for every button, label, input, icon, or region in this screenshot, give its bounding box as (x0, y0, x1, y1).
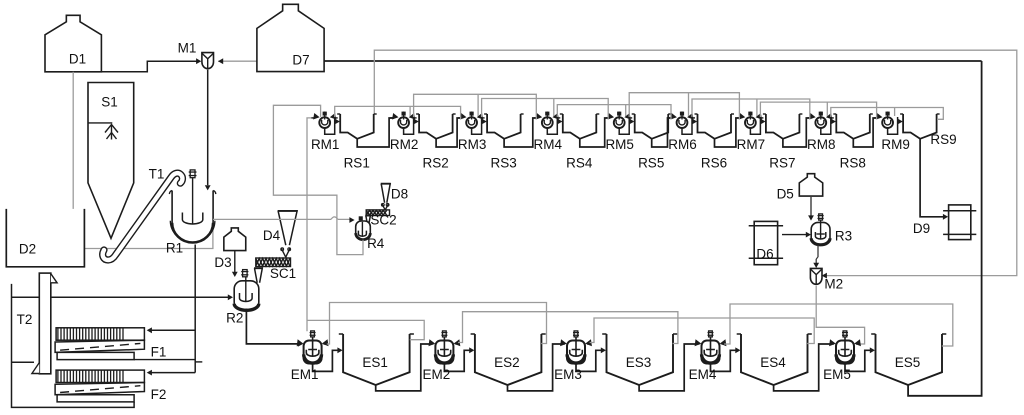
svg-text:ES4: ES4 (760, 355, 786, 370)
svg-text:R3: R3 (835, 229, 852, 244)
mixer RM4 (534, 112, 563, 152)
svg-text:D6: D6 (756, 247, 773, 262)
wire RS4 outlet to RM5 (580, 118, 610, 147)
svg-text:SC1: SC1 (270, 266, 296, 281)
connector under D4 (281, 248, 291, 257)
settler RS6 (695, 114, 735, 170)
svg-text:EM1: EM1 (291, 367, 319, 382)
wire RS3 outlet to RM4 (504, 118, 538, 147)
svg-text:RS3: RS3 (490, 155, 516, 170)
wire recycle stage 5 (629, 93, 739, 120)
wire R1 to filters F1 F2 (194, 245, 196, 373)
settler ES1 (339, 334, 414, 385)
silo D1 (45, 15, 101, 72)
svg-text:T2: T2 (17, 312, 33, 327)
settler RS5 (632, 114, 672, 170)
filter tank S1 (88, 83, 134, 239)
svg-text:RM3: RM3 (458, 137, 487, 152)
belt filter F2 (55, 370, 166, 402)
belt filter F1 (55, 328, 166, 360)
tank D2 (6, 209, 84, 267)
wire recycle stage 7 (760, 102, 876, 119)
funnel D8 (381, 184, 408, 203)
hopper D3 (214, 228, 245, 270)
svg-text:RS5: RS5 (638, 155, 664, 170)
svg-text:RM6: RM6 (668, 137, 697, 152)
mixer EM1 (291, 331, 343, 382)
wire to reactor R2 (12, 294, 234, 300)
conveyor T1 (103, 167, 183, 261)
wire ES1 light phase to RM1 (307, 118, 424, 340)
drum D6 (749, 221, 783, 264)
reactor R3 (811, 214, 852, 245)
screw conveyor SC2 (366, 210, 396, 228)
wire M2 to EM5 (816, 286, 864, 344)
svg-text:RM4: RM4 (534, 137, 563, 152)
reactor R1 (166, 170, 216, 256)
settler RS7 (763, 114, 803, 170)
settler ES2 (471, 334, 546, 385)
wire left loop to T2 (12, 361, 35, 363)
wire D5 to R3 (808, 196, 814, 221)
settler RS2 (416, 114, 456, 170)
funnel D4 (263, 211, 298, 245)
funnel SC2 outlet (365, 216, 371, 224)
svg-text:RS2: RS2 (422, 155, 448, 170)
svg-text:EM3: EM3 (554, 367, 582, 382)
svg-text:ES1: ES1 (362, 355, 388, 370)
settler RS8 (833, 114, 873, 170)
wire RS2 outlet to RM3 (436, 118, 462, 147)
wire RS5 outlet to RM6 (652, 118, 673, 147)
wire R2 to EM1 (246, 309, 303, 347)
svg-text:RM9: RM9 (881, 137, 910, 152)
settler RS3 (484, 114, 523, 170)
settler ES4 (737, 334, 812, 385)
reactor R4 (356, 216, 385, 251)
wire top rail from D7 to right side (324, 60, 981, 62)
svg-text:T1: T1 (149, 167, 165, 182)
funnel SC1 outlet (254, 268, 263, 283)
svg-text:RM5: RM5 (605, 137, 634, 152)
svg-text:RS7: RS7 (769, 155, 795, 170)
svg-text:RM2: RM2 (390, 137, 419, 152)
settler RS4 (560, 114, 600, 170)
wire recycle stage 1 (335, 106, 461, 119)
wire recycle stage 6 (692, 99, 810, 120)
svg-text:M2: M2 (824, 277, 843, 292)
svg-text:M1: M1 (178, 41, 197, 56)
svg-text:R2: R2 (226, 311, 243, 326)
settler ES5 (871, 334, 946, 385)
wire recycle stage 4 (557, 105, 671, 120)
wire D2 to R4 line (84, 219, 213, 248)
wire R4 to RM1 (273, 105, 363, 254)
mixer EM5 (823, 331, 875, 382)
mixer RM6 (668, 112, 697, 152)
wire F2 tray to left return loop (12, 284, 135, 408)
mixer RM2 (390, 112, 419, 152)
wire recycle stage 8 (831, 108, 944, 120)
svg-text:D9: D9 (913, 221, 930, 236)
wire D6 to R3 (782, 232, 811, 238)
svg-text:SC2: SC2 (370, 213, 396, 228)
svg-text:EM4: EM4 (689, 367, 717, 382)
svg-text:D4: D4 (263, 228, 281, 243)
svg-text:ES2: ES2 (494, 355, 520, 370)
connector under D8 (381, 203, 389, 210)
svg-text:D1: D1 (69, 52, 86, 67)
wire RS6 outlet to RM7 (715, 118, 741, 147)
wire RS7 outlet to RM8 (783, 118, 811, 147)
svg-text:RS8: RS8 (840, 155, 866, 170)
settler RS9 (900, 114, 957, 147)
silo D7 (257, 4, 324, 71)
wire ES2 outlet to EM3 (508, 344, 562, 391)
wire R1 to R4 (213, 217, 355, 223)
wire RS1 outlet to RM2 (357, 118, 394, 147)
drum D9 (913, 205, 976, 240)
svg-text:RS9: RS9 (930, 132, 956, 147)
svg-text:RS4: RS4 (566, 155, 593, 170)
svg-text:RS6: RS6 (701, 155, 727, 170)
mixer RM1 (311, 112, 340, 152)
mixer RM8 (807, 112, 836, 152)
reactor R2 (226, 270, 259, 326)
svg-text:F2: F2 (151, 387, 167, 402)
svg-text:D5: D5 (777, 187, 794, 202)
wire recycle stage 3 (482, 99, 609, 120)
settler ES3 (602, 334, 677, 385)
svg-text:RM7: RM7 (737, 137, 766, 152)
wire ES4 outlet to EM5 (774, 344, 831, 391)
svg-text:F1: F1 (151, 345, 167, 360)
wire RS8 outlet to RM9 (853, 118, 878, 147)
wire D3 to R2 (232, 251, 238, 277)
mixer RM7 (737, 112, 766, 152)
wire ES5 outlet loop to top rail (908, 61, 982, 396)
wire R3 to M2 (813, 245, 819, 268)
svg-text:RM1: RM1 (311, 137, 340, 152)
wire ES1 outlet to EM2 (376, 344, 430, 391)
mixer M2 (810, 268, 843, 291)
svg-text:EM5: EM5 (823, 367, 851, 382)
mixer M1 (178, 41, 214, 69)
svg-text:ES3: ES3 (626, 355, 652, 370)
screw conveyor SC1 (256, 258, 296, 281)
wire M1 to reactor R1 (205, 70, 211, 191)
svg-text:D2: D2 (19, 242, 36, 257)
wire ES4 light phase to EM3 (590, 318, 815, 344)
mixer RM5 (605, 112, 634, 152)
svg-text:RM8: RM8 (807, 137, 836, 152)
svg-text:D8: D8 (391, 187, 408, 202)
wire ES5 light phase to EM4 (724, 304, 953, 346)
svg-text:R1: R1 (166, 241, 183, 256)
svg-text:D7: D7 (292, 53, 309, 68)
hopper D5 (777, 174, 823, 202)
mixer EM2 (423, 331, 475, 382)
conveyor T2 (17, 273, 57, 374)
wire D1 to tank D2 (72, 72, 74, 214)
wire F1 tray to F2 feed line (134, 360, 202, 362)
mixer RM3 (458, 112, 487, 152)
svg-text:EM2: EM2 (423, 367, 451, 382)
wire feed into F2 (147, 370, 196, 376)
mixer EM3 (554, 331, 606, 382)
settler RS1 (337, 114, 377, 170)
wire ES2 light phase to EM1 (327, 303, 547, 345)
svg-text:RS1: RS1 (344, 155, 370, 170)
mixer EM4 (689, 331, 741, 382)
svg-text:R4: R4 (367, 236, 385, 251)
wire D7 to mixer M1 (218, 58, 257, 64)
mixer RM9 (874, 112, 910, 152)
wire D1 outlet to mixer M1 (102, 58, 202, 72)
wire feed into F1 (147, 327, 196, 333)
svg-text:S1: S1 (101, 95, 118, 110)
svg-text:D3: D3 (214, 255, 231, 270)
wire ES3 outlet to EM4 (639, 344, 696, 391)
wire gray rail to mixer M2 (374, 50, 1017, 278)
wire ES3 light phase to EM2 (458, 312, 678, 344)
wire RS9 outlet to D9 (920, 139, 948, 220)
svg-text:ES5: ES5 (895, 355, 921, 370)
wire recycle stage 2 (414, 94, 537, 119)
